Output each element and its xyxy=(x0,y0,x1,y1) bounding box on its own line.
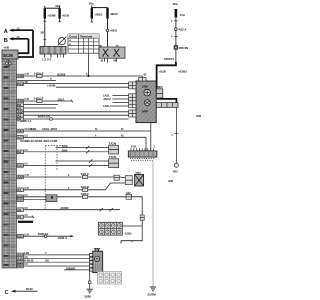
svg-text:5/6A: 5/6A xyxy=(62,144,69,148)
svg-text:10/DBR: 10/DBR xyxy=(66,266,75,270)
wire loop grid to right xyxy=(122,225,142,227)
svg-text:GN: GN xyxy=(45,259,49,262)
wire pair upper xyxy=(56,146,109,148)
bar 101 pins below xyxy=(42,54,64,62)
connector 14/2 xyxy=(126,191,132,200)
relay block xyxy=(99,44,125,62)
svg-text:Cond: Cond xyxy=(69,34,77,38)
svg-text:+IB/12: +IB/12 xyxy=(110,12,119,16)
connector cells row A xyxy=(114,175,119,180)
wire row -1630 xyxy=(17,206,120,211)
svg-text:4/56:2N: 4/56:2N xyxy=(178,46,188,50)
svg-text:-1630#: -1630# xyxy=(60,206,70,210)
svg-text:31/3B: 31/3B xyxy=(84,295,91,299)
inline connector xyxy=(174,46,178,50)
fuse F1 xyxy=(44,4,70,19)
connector strip 4/56 left edge xyxy=(2,59,17,268)
svg-text:B18: B18 xyxy=(17,198,23,202)
node C arrow xyxy=(5,287,38,296)
wire stubs into 4/56 xyxy=(103,93,129,108)
svg-text:B9: B9 xyxy=(17,117,21,121)
wire thick stair xyxy=(157,62,176,89)
svg-text:B31: B31 xyxy=(17,264,23,268)
connector stack T/GN upper xyxy=(109,142,119,154)
strip pin terminals xyxy=(17,74,24,268)
svg-text:ECM: ECM xyxy=(3,53,13,58)
svg-text:30a: 30a xyxy=(173,2,178,6)
fuse F2 xyxy=(89,2,119,19)
svg-text:C: C xyxy=(5,290,9,296)
module 4/56 central xyxy=(136,77,156,122)
wire B thick xyxy=(18,39,29,53)
wire down and loop xyxy=(121,220,142,243)
wire 4/56 bottom pin down xyxy=(150,123,152,151)
wire row 54/2:B xyxy=(17,183,125,191)
wire row 1600:F1 xyxy=(17,232,74,240)
svg-text:30a: 30a xyxy=(89,2,94,6)
connector 36/2 xyxy=(153,85,163,98)
wire row 14/2A:F xyxy=(17,97,72,103)
svg-text:1 2 3 4: 1 2 3 4 xyxy=(42,58,51,62)
wire labels A/B lines xyxy=(17,28,21,39)
wire down to 17/5 xyxy=(145,137,147,151)
svg-text:B: B xyxy=(4,38,8,44)
ground G1 xyxy=(147,287,156,297)
svg-text:A28: A28 xyxy=(17,74,23,78)
svg-text:+3X0B: +3X0B xyxy=(47,83,56,87)
wire thick xyxy=(158,98,177,103)
svg-text:+IB/I1: +IB/I1 xyxy=(110,29,118,33)
wire from 14/2 down xyxy=(132,197,143,215)
wire xyxy=(175,31,177,46)
wire row 54/2:C xyxy=(17,192,126,199)
svg-text:AKSL 42/31: AKSL 42/31 xyxy=(42,127,58,131)
svg-text:0.75: 0.75 xyxy=(25,174,30,177)
strip cell marks xyxy=(4,66,9,266)
svg-text:+IG30: +IG30 xyxy=(62,14,70,18)
dashed option frame xyxy=(45,146,63,210)
svg-text:B4: B4 xyxy=(17,150,21,154)
table condition/terminal xyxy=(68,34,99,53)
module 4/56 top pin cells xyxy=(139,77,146,81)
svg-text:K-BUS: K-BUS xyxy=(24,258,33,262)
svg-text:AKSN JDCH A4M: AKSN JDCH A4M xyxy=(34,139,57,143)
svg-text:1600:F1: 1600:F1 xyxy=(38,232,49,236)
svg-text:A7: A7 xyxy=(17,188,21,192)
svg-text:132K: 132K xyxy=(142,85,150,89)
splice 4/52 xyxy=(175,28,178,31)
svg-text:11A: 11A xyxy=(180,13,186,17)
node B arrow xyxy=(4,37,29,44)
svg-text:+IG30: +IG30 xyxy=(158,69,166,73)
svg-text:101: 101 xyxy=(40,30,45,34)
wire row short xyxy=(17,104,58,106)
splice node xyxy=(106,29,109,32)
module ECM xyxy=(2,50,18,59)
node A arrow xyxy=(4,29,33,36)
wire row 14/2A:E xyxy=(17,72,142,78)
wire row long xyxy=(17,111,129,113)
svg-text:-1GB5: -1GB5 xyxy=(124,231,132,235)
svg-text:0.5 GR: 0.5 GR xyxy=(25,128,32,131)
svg-text:0.75: 0.75 xyxy=(25,73,30,76)
svg-text:B21: B21 xyxy=(17,234,23,238)
connector row xyxy=(151,103,179,108)
wire F2 right down xyxy=(107,19,109,47)
module 7/8 xyxy=(93,248,103,273)
module 4/56 left pin cells xyxy=(129,82,136,117)
extra pin number labels xyxy=(86,20,173,149)
svg-text:B11: B11 xyxy=(17,164,23,168)
wire A thick xyxy=(18,30,33,57)
shield bar xyxy=(18,221,33,223)
svg-text:+IGN6: +IGN6 xyxy=(47,14,56,18)
svg-text:A22: A22 xyxy=(17,175,23,179)
fuse F3 11A xyxy=(173,2,186,17)
wire stub F1 right xyxy=(59,19,61,22)
wire from F1 xyxy=(44,19,46,47)
ground G2 xyxy=(84,289,93,298)
wire junction vertical to table xyxy=(88,53,90,76)
svg-text:SD/4T:3: SD/4T:3 xyxy=(164,57,174,61)
wire pair lower xyxy=(56,160,109,162)
connector 17/5 pin dots xyxy=(130,158,154,161)
svg-text:APP: APP xyxy=(142,109,148,113)
wire row to 4/56 pin1 xyxy=(17,83,129,85)
svg-text:1A2L.C: 1A2L.C xyxy=(103,104,113,108)
wire row 10/DBR xyxy=(64,266,90,270)
connector grid face lower xyxy=(98,272,122,284)
svg-text:6/32: 6/32 xyxy=(196,114,201,118)
wire row short xyxy=(17,80,56,82)
svg-text:31/5M: 31/5M xyxy=(147,293,156,297)
inline connector pair xyxy=(140,215,144,220)
svg-text:A31: A31 xyxy=(17,129,23,133)
connector bar 101 xyxy=(40,47,66,55)
svg-text:B14: B14 xyxy=(17,82,23,86)
svg-text:0.75: 0.75 xyxy=(25,187,30,190)
splice end circle xyxy=(174,163,178,167)
wire xyxy=(175,49,177,62)
svg-text:+IB1G: +IB1G xyxy=(94,13,103,17)
wire down to splice xyxy=(175,107,177,163)
splice box xyxy=(46,195,57,202)
svg-text:SB: SB xyxy=(25,81,29,84)
svg-text:A17: A17 xyxy=(17,135,23,139)
svg-text:-2GB:4: -2GB:4 xyxy=(57,236,67,240)
icon twisted pair xyxy=(6,61,11,66)
wire row short shield xyxy=(17,216,33,218)
wire rows into 7/8 xyxy=(17,255,90,266)
relay 7/54 xyxy=(135,171,144,186)
module 7/8 pin cells xyxy=(90,253,93,271)
svg-text:4/52: 4/52 xyxy=(173,170,178,174)
wire stub F2 left xyxy=(91,19,93,22)
wire row to 17/5 second xyxy=(17,137,146,143)
svg-text:A: A xyxy=(4,29,8,35)
wire ground run xyxy=(152,161,154,286)
svg-text:0.75: 0.75 xyxy=(25,233,30,236)
svg-text:-1/31A: -1/31A xyxy=(57,97,65,101)
wire row 54/3:A xyxy=(17,172,125,178)
svg-text:0.75: 0.75 xyxy=(25,98,30,101)
svg-text:A5: A5 xyxy=(17,215,21,219)
icon slash circle xyxy=(58,37,67,46)
svg-text:A9: A9 xyxy=(17,208,21,212)
grid pin digits xyxy=(101,225,120,232)
relay 7/54 pin cells xyxy=(125,176,132,185)
svg-text:16/34:1B: 16/34:1B xyxy=(38,114,51,118)
svg-text:5/64: 5/64 xyxy=(62,148,68,152)
connector 17/5 xyxy=(128,145,157,158)
svg-text:T: T xyxy=(50,77,52,81)
svg-text:Terminal: Terminal xyxy=(80,34,92,38)
svg-text:-B2X08: -B2X08 xyxy=(57,72,66,76)
svg-text:6/32: 6/32 xyxy=(168,179,173,183)
wire row to 4/56 pin2 xyxy=(56,86,129,88)
wire row long xyxy=(17,114,129,116)
wire gauge labels xyxy=(25,55,99,266)
connector stack T/GN lower xyxy=(109,155,119,167)
wire end tick xyxy=(71,100,72,103)
wire row splice 16/34 xyxy=(17,114,129,122)
wire from F3 xyxy=(175,17,177,28)
svg-text:+IG/B3: +IG/B3 xyxy=(178,69,187,73)
svg-text:W-30: W-30 xyxy=(26,287,33,291)
wire to ground G2 xyxy=(89,270,91,281)
wire row short xyxy=(17,107,56,109)
svg-text:17/5: 17/5 xyxy=(131,145,137,149)
svg-text:JAD.C: JAD.C xyxy=(103,97,112,101)
svg-text:4/52:4: 4/52:4 xyxy=(178,28,186,32)
connector grid 23/8 xyxy=(98,222,132,235)
wire row to 17/5 xyxy=(17,127,151,131)
